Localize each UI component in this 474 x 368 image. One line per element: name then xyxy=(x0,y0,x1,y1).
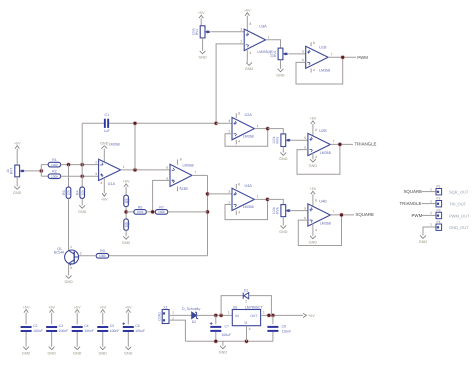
wire R2 to U1A pin3 xyxy=(61,175,99,177)
ground below C2 xyxy=(22,347,31,356)
svg-text:LM358: LM358 xyxy=(320,151,331,155)
wire Q1 emitter to ground xyxy=(68,264,70,276)
svg-text:D2: D2 xyxy=(192,320,196,324)
wire U3A V- pin xyxy=(246,49,248,62)
ground below U4B xyxy=(309,236,318,245)
svg-text:GND: GND xyxy=(13,191,22,195)
op-amp U2A xyxy=(232,117,254,139)
wire R9 to Q1 base xyxy=(79,255,96,257)
power stub V+ of U1B xyxy=(310,42,312,46)
wire to R2 left xyxy=(41,175,48,177)
svg-text:TRIANGLE: TRIANGLE xyxy=(400,201,422,206)
+5V supply for RV7 xyxy=(14,141,21,148)
svg-text:100k: 100k xyxy=(99,254,106,258)
wire U4A feedback loop xyxy=(225,199,268,219)
wire +5V to C6 xyxy=(127,313,129,325)
wire U3A V+ pin xyxy=(246,16,248,31)
resistor R8 10k xyxy=(124,219,131,230)
svg-text:GND: GND xyxy=(122,241,131,245)
wire RV1 top xyxy=(200,18,202,26)
svg-text:6: 6 xyxy=(304,145,306,149)
svg-text:+5V: +5V xyxy=(125,305,132,309)
svg-text:SQUARE: SQUARE xyxy=(404,189,423,194)
op-amp U3A xyxy=(244,29,265,50)
svg-text:GND: GND xyxy=(245,67,254,71)
svg-text:LM7805CT: LM7805CT xyxy=(245,305,264,309)
svg-text:GND: GND xyxy=(309,164,318,168)
potentiometer RV2 100k xyxy=(269,48,287,60)
wire to U4A pin3 xyxy=(208,193,233,195)
wire RV7 wiper to R1 R2 xyxy=(25,170,41,172)
wire RV6 bottom xyxy=(282,217,284,226)
svg-text:2: 2 xyxy=(228,200,230,204)
+5V supply below U1A (mirrored) xyxy=(101,193,108,201)
svg-text:G: G xyxy=(244,321,248,324)
svg-text:X1: X1 xyxy=(163,306,167,310)
wire U1B feedback loop xyxy=(296,57,343,84)
+5V supply for RV1 xyxy=(198,11,205,18)
wire D2 to regulator IN xyxy=(197,314,233,316)
op-amp U1A xyxy=(99,159,121,180)
wire R5 to R7 xyxy=(146,211,155,213)
svg-text:IN: IN xyxy=(235,314,239,318)
svg-text:2: 2 xyxy=(263,310,265,314)
op-amp U3B xyxy=(170,164,192,186)
connector P2 xyxy=(436,197,442,207)
wire up to C1 rail xyxy=(134,123,136,170)
svg-text:7: 7 xyxy=(333,210,335,214)
wire vertical R1-R2 left tie xyxy=(40,165,42,177)
svg-text:7: 7 xyxy=(333,140,335,144)
junction SQUARE node xyxy=(339,213,344,218)
svg-text:1: 1 xyxy=(430,187,432,191)
svg-text:1: 1 xyxy=(430,211,432,215)
wire C5 to ground xyxy=(102,332,104,347)
svg-text:100nF: 100nF xyxy=(59,329,69,333)
svg-text:P3: P3 xyxy=(436,208,440,212)
wire U2A output to RV5 xyxy=(268,129,284,134)
wire C7 top xyxy=(215,315,217,324)
svg-text:R5: R5 xyxy=(138,205,143,209)
svg-text:GND: GND xyxy=(198,56,207,60)
junction C1 rail and comparator xyxy=(214,121,219,126)
svg-text:4: 4 xyxy=(315,228,317,232)
junction R1-R3 xyxy=(66,162,71,167)
svg-text:100k: 100k xyxy=(272,207,276,215)
wire U4B V+ pin xyxy=(312,194,314,206)
svg-text:3: 3 xyxy=(70,266,72,270)
wire X1 pin1 to D2 xyxy=(169,314,192,316)
wire D1 right branch xyxy=(249,296,272,316)
svg-text:2: 2 xyxy=(240,40,242,44)
wire RV5 bottom xyxy=(282,147,284,153)
wire U2B V- pin xyxy=(312,153,314,159)
svg-text:5: 5 xyxy=(304,206,306,210)
svg-text:5: 5 xyxy=(302,50,304,54)
wire U1A output to U3B pin6 xyxy=(121,169,170,171)
svg-text:8: 8 xyxy=(250,22,252,26)
svg-text:100k: 100k xyxy=(51,174,58,178)
svg-text:U5: U5 xyxy=(233,305,238,309)
wire RV1 wiper to U3A pin3 xyxy=(210,31,244,33)
ground below Q1 xyxy=(64,276,73,285)
+5V supply for C5 xyxy=(99,305,106,312)
wire RV7 bottom xyxy=(16,177,18,187)
svg-text:7: 7 xyxy=(331,53,333,57)
wire divider to R5 xyxy=(126,211,135,213)
resistor R5 100k xyxy=(134,205,146,214)
wire U2B feedback loop xyxy=(297,144,340,174)
svg-text:U2B: U2B xyxy=(319,129,327,133)
wire D1 left branch xyxy=(221,296,242,316)
resistor R6 10k xyxy=(124,195,131,206)
svg-text:OUT: OUT xyxy=(250,314,257,318)
power stub V- of U1B xyxy=(310,68,312,72)
+5V supply for U2B xyxy=(310,117,317,124)
power stub V+ of U2A xyxy=(235,113,237,118)
capacitor C2 100nF xyxy=(21,326,32,332)
svg-text:LM358: LM358 xyxy=(320,222,331,226)
wire R3 to Q1 collector xyxy=(68,198,70,250)
+5V supply for C2 xyxy=(23,305,30,312)
svg-text:GND: GND xyxy=(73,351,82,355)
resistor R1 100k xyxy=(48,158,60,167)
wire rail to ground symbol xyxy=(222,341,224,346)
svg-text:C2: C2 xyxy=(33,324,37,328)
svg-text:8: 8 xyxy=(180,158,182,162)
wire U4B feedback loop xyxy=(298,215,341,246)
svg-text:RV1: RV1 xyxy=(195,28,199,35)
svg-text:2: 2 xyxy=(245,299,247,303)
capacitor C7 100uF xyxy=(210,322,221,332)
svg-text:PWM: PWM xyxy=(357,55,368,60)
svg-text:U1A: U1A xyxy=(108,182,116,186)
ground above U1A (mirrored) xyxy=(100,141,109,148)
wire U2A feedback loop xyxy=(225,129,268,147)
diode D2 schottky xyxy=(192,312,199,318)
wire comparator bus to R9 xyxy=(108,255,208,257)
svg-text:LM358: LM358 xyxy=(319,69,330,73)
svg-text:100k: 100k xyxy=(272,136,276,144)
svg-text:6: 6 xyxy=(302,58,304,62)
svg-text:1: 1 xyxy=(172,311,174,315)
svg-text:8: 8 xyxy=(238,182,240,186)
ground below C4 xyxy=(73,347,82,356)
connector P3 xyxy=(436,208,442,218)
svg-text:P1: P1 xyxy=(436,185,440,189)
svg-text:GND: GND xyxy=(78,210,87,214)
wire regulator G pin to rail xyxy=(246,326,248,342)
svg-text:+5V: +5V xyxy=(198,11,205,15)
svg-text:2: 2 xyxy=(228,130,230,134)
svg-text:100nF: 100nF xyxy=(33,329,43,333)
svg-text:5: 5 xyxy=(304,136,306,140)
svg-text:R4: R4 xyxy=(76,190,80,195)
power stub V+ of U3B xyxy=(177,160,179,165)
svg-text:TRIANGLE: TRIANGLE xyxy=(355,142,377,147)
svg-text:100k: 100k xyxy=(51,163,58,167)
wire comparator output bus down xyxy=(207,175,209,255)
wire to R1 left xyxy=(41,164,48,166)
wire C6 to ground xyxy=(127,332,129,347)
wire R8 to ground xyxy=(125,230,127,236)
wire U4B V- pin xyxy=(312,224,314,236)
svg-text:TRI_OUT: TRI_OUT xyxy=(449,202,467,207)
svg-text:2: 2 xyxy=(80,251,82,255)
op-amp U4B xyxy=(308,204,330,226)
capacitor C6 100uF xyxy=(122,322,133,332)
svg-text:R2: R2 xyxy=(52,170,57,174)
svg-text:C8: C8 xyxy=(282,324,286,328)
svg-text:GND: GND xyxy=(48,351,57,355)
wire C4 to ground xyxy=(76,332,78,347)
svg-text:100k: 100k xyxy=(269,50,273,58)
power stub V- of U4A xyxy=(235,211,237,216)
svg-text:R9: R9 xyxy=(100,249,105,253)
wire +5V to C2 xyxy=(25,313,27,325)
wire U4A output to RV6 xyxy=(268,199,284,204)
svg-text:3: 3 xyxy=(228,119,230,123)
junction C7 tap xyxy=(213,313,218,318)
svg-text:+5V: +5V xyxy=(123,180,130,184)
wire U1A V- pin up xyxy=(103,149,105,163)
svg-text:4: 4 xyxy=(100,181,102,185)
wire ground to P4 xyxy=(423,227,436,236)
voltage regulator U5 LM7805CT xyxy=(232,310,260,326)
wire U2B V+ pin xyxy=(312,124,314,136)
junction C8 tap xyxy=(271,313,276,318)
svg-text:1: 1 xyxy=(70,245,72,249)
wire U3A pin2 down to integrator rail xyxy=(216,44,244,123)
svg-text:4: 4 xyxy=(179,186,181,190)
svg-text:RV6: RV6 xyxy=(276,207,280,214)
capacitor C3 100nF xyxy=(46,326,57,332)
svg-text:C5: C5 xyxy=(110,324,114,328)
wire U1A V+ pin down xyxy=(103,178,105,193)
junction to U4A xyxy=(205,192,210,197)
svg-text:GND: GND xyxy=(279,157,288,161)
wire U3B pin5 to divider xyxy=(153,180,170,212)
diode D1 xyxy=(243,293,249,299)
connector P4 xyxy=(436,220,442,230)
+5V supply for divider xyxy=(123,180,130,187)
svg-text:+5V: +5V xyxy=(74,305,81,309)
wire C8 bottom xyxy=(272,332,274,341)
junction D1 right tap xyxy=(267,313,272,318)
svg-text:1: 1 xyxy=(430,223,432,227)
wire C1 rail left xyxy=(82,122,104,124)
svg-text:3: 3 xyxy=(228,190,230,194)
svg-text:7: 7 xyxy=(194,171,196,175)
wire regulator OUT to +5V xyxy=(261,314,303,316)
power stub V- of U2A xyxy=(235,140,237,145)
svg-text:100k: 100k xyxy=(137,210,144,214)
junction R4 tap xyxy=(80,174,85,179)
wire +5V to C3 xyxy=(51,313,53,325)
junction to R7 xyxy=(205,210,210,215)
transistor Q1 BC548 xyxy=(65,250,79,266)
svg-text:6: 6 xyxy=(166,166,168,170)
svg-text:10k: 10k xyxy=(80,190,84,195)
+5V supply for U4B xyxy=(310,187,317,194)
wire PWM to P3 xyxy=(421,214,436,216)
svg-text:U4B: U4B xyxy=(319,199,327,203)
resistor R9 100k xyxy=(96,249,108,258)
svg-text:+5V: +5V xyxy=(308,314,315,318)
svg-text:10k: 10k xyxy=(67,190,71,195)
svg-text:1uF: 1uF xyxy=(104,129,110,133)
wire R4 to ground xyxy=(81,198,83,205)
svg-text:R3: R3 xyxy=(62,190,66,195)
svg-text:GND: GND xyxy=(276,73,285,77)
svg-text:100k: 100k xyxy=(158,210,165,214)
svg-text:P4: P4 xyxy=(436,220,440,224)
+5V output arrow xyxy=(303,313,306,317)
svg-text:GND: GND xyxy=(219,350,228,354)
wire C1 rail right xyxy=(109,122,216,124)
junction U1A output to C1 xyxy=(133,168,138,173)
svg-text:C4: C4 xyxy=(84,324,88,328)
junction at RV7 wiper xyxy=(39,169,44,174)
svg-text:3: 3 xyxy=(240,28,242,32)
wire R7 to comparator bus xyxy=(168,211,208,213)
svg-text:CON2: CON2 xyxy=(157,312,161,321)
svg-text:LM358: LM358 xyxy=(183,163,194,167)
capacitor C5 100nF xyxy=(97,326,108,332)
resistor R3 10k xyxy=(62,187,71,198)
svg-text:+5V: +5V xyxy=(14,141,21,145)
resistor R7 100k xyxy=(155,205,167,214)
ground below R4 xyxy=(78,205,87,214)
svg-text:8: 8 xyxy=(238,112,240,116)
wire feedback bus down to R4 xyxy=(81,123,83,187)
wire RV2 bottom xyxy=(280,60,282,69)
svg-text:RV7: RV7 xyxy=(10,168,14,175)
ground below P4 xyxy=(419,236,428,245)
svg-text:U3A: U3A xyxy=(259,25,267,29)
svg-text:U2A: U2A xyxy=(245,113,253,117)
wire U4B output to SQUARE xyxy=(330,214,354,216)
svg-text:1: 1 xyxy=(430,199,432,203)
wire X1 pin2 to rail xyxy=(169,320,185,341)
capacitor C1 1uF xyxy=(104,119,109,128)
svg-text:6: 6 xyxy=(304,216,306,220)
junction D1 left tap xyxy=(219,313,224,318)
svg-text:R7: R7 xyxy=(159,205,164,209)
svg-text:R8: R8 xyxy=(127,222,131,227)
svg-text:SQUARE: SQUARE xyxy=(355,212,374,217)
ground below RV7 xyxy=(13,186,22,195)
ground below U3A xyxy=(245,63,254,72)
svg-text:+5V: +5V xyxy=(310,187,317,191)
ground below RV2 xyxy=(276,69,285,78)
junction divider midpoint xyxy=(124,210,129,215)
+5V supply for U3A xyxy=(244,8,251,15)
connector P1 xyxy=(436,185,442,195)
svg-text:1k: 1k xyxy=(6,169,10,173)
capacitor C8 100nF xyxy=(267,326,278,332)
svg-text:R1: R1 xyxy=(52,158,57,162)
+5V supply for C6 xyxy=(125,305,132,312)
svg-text:LM358: LM358 xyxy=(243,134,254,138)
wire RV6 wiper to U4B pin5 xyxy=(291,210,308,212)
wire RV5 wiper to U2B pin5 xyxy=(291,139,308,141)
junction C7 to rail xyxy=(213,339,218,344)
svg-text:+5V: +5V xyxy=(23,305,30,309)
svg-text:4: 4 xyxy=(238,210,240,214)
ground below RV5 xyxy=(279,153,288,162)
svg-text:GND: GND xyxy=(309,240,318,244)
svg-text:C3: C3 xyxy=(59,324,63,328)
wire U2A output xyxy=(254,128,267,130)
wire RV7 top xyxy=(16,149,18,166)
wire +5V to C4 xyxy=(76,313,78,325)
op-amp U4A xyxy=(232,188,254,210)
capacitor C4 100nF xyxy=(72,326,83,332)
wire C2 to ground xyxy=(25,332,27,347)
svg-text:+5V: +5V xyxy=(48,305,55,309)
junction U4A output xyxy=(265,197,270,202)
svg-text:+5V: +5V xyxy=(99,305,106,309)
svg-text:4: 4 xyxy=(315,155,317,159)
power stub V+ of U4A xyxy=(235,184,237,189)
wire +5V to C5 xyxy=(102,313,104,325)
svg-text:1: 1 xyxy=(123,165,125,169)
ground below C6 xyxy=(124,347,133,356)
svg-text:8: 8 xyxy=(313,41,315,45)
potentiometer RV6 100k xyxy=(272,205,290,217)
svg-text:C1: C1 xyxy=(104,113,109,117)
junction regulator ground xyxy=(244,339,249,344)
svg-text:GND_OUT: GND_OUT xyxy=(449,225,469,230)
junction R5-R7-U3B xyxy=(150,210,155,215)
ground below RV6 xyxy=(279,226,288,235)
resistor R4 10k xyxy=(76,187,85,198)
junction C1 rail and U1A output xyxy=(133,121,138,126)
wire RV1 bottom xyxy=(202,38,204,51)
ground below C5 xyxy=(99,347,108,356)
svg-text:3: 3 xyxy=(95,172,97,176)
svg-text:U4A: U4A xyxy=(245,184,253,188)
svg-text:D1: D1 xyxy=(244,288,248,292)
svg-text:2: 2 xyxy=(95,160,97,164)
junction feedback bus to pin2 xyxy=(80,162,85,167)
svg-text:GND: GND xyxy=(64,280,73,284)
svg-text:BC548: BC548 xyxy=(54,251,64,255)
svg-text:+5V: +5V xyxy=(244,8,251,12)
wire U3B output xyxy=(192,174,208,176)
svg-text:120nF: 120nF xyxy=(282,329,292,333)
wire R1 to U1A pin2 xyxy=(61,164,99,166)
svg-text:100k: 100k xyxy=(191,28,195,36)
op-amp U2B xyxy=(308,133,330,155)
svg-text:100nF: 100nF xyxy=(84,329,94,333)
svg-text:1: 1 xyxy=(257,124,259,128)
svg-text:U1B: U1B xyxy=(319,46,327,50)
wire RV2 wiper to U1B pin5 xyxy=(288,53,305,55)
svg-text:PWM: PWM xyxy=(412,213,423,218)
svg-text:1: 1 xyxy=(228,310,230,314)
wire U4A output xyxy=(254,198,267,200)
svg-text:LM358: LM358 xyxy=(243,205,254,209)
svg-text:4: 4 xyxy=(313,68,315,72)
svg-text:8: 8 xyxy=(315,198,317,202)
svg-text:RV5: RV5 xyxy=(276,137,280,144)
wire TRIANGLE to P2 xyxy=(422,203,436,205)
ground below U2B xyxy=(309,159,318,168)
ground of power supply xyxy=(219,346,228,355)
+5V supply for C4 xyxy=(74,305,81,312)
